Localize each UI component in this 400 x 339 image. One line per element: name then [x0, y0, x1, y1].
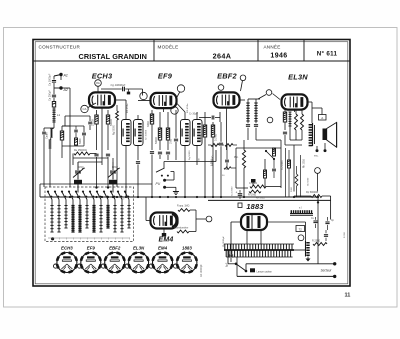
svg-text:EBF2: EBF2 [217, 72, 237, 81]
feedback box wires [236, 148, 281, 188]
IF transformer 1b [134, 120, 144, 146]
wire bus right drop [317, 197, 319, 264]
output transformer [309, 123, 315, 146]
svg-text:25000: 25000 [200, 134, 203, 141]
svg-text:s.f.: s.f. [299, 207, 302, 209]
svg-text:Cd 10000pF: Cd 10000pF [201, 264, 203, 277]
svg-text:8A: 8A [96, 81, 100, 85]
svg-text:MODÈLE: MODÈLE [158, 44, 179, 50]
svg-text:72: 72 [299, 227, 303, 231]
pin 15 [240, 75, 246, 81]
tube ECH3 [89, 92, 115, 107]
svg-text:MF 472kc: MF 472kc [127, 102, 129, 113]
pin 6B [177, 85, 184, 92]
wire IF1 bottom [126, 146, 138, 198]
label A box [312, 108, 326, 120]
svg-text:Cg 10000pF: Cg 10000pF [111, 83, 126, 87]
svg-text:0,1MΩ: 0,1MΩ [215, 134, 218, 141]
svg-text:Ch 8000μF: Ch 8000μF [223, 235, 225, 247]
capacitor note [201, 264, 203, 277]
svg-text:Rf 1MΩ: Rf 1MΩ [248, 194, 256, 197]
svg-text:EBF2: EBF2 [109, 245, 121, 250]
svg-text:Rk 150Ω: Rk 150Ω [304, 159, 306, 168]
capacitor Cb1 [74, 126, 78, 138]
resistor R11 [248, 190, 261, 196]
wire CV2 feed [107, 158, 113, 189]
coil bank L6 [61, 191, 68, 240]
coil bank L8 [75, 191, 82, 240]
wire det [248, 94, 280, 141]
switch common bar [48, 237, 130, 240]
svg-text:ECH3: ECH3 [61, 245, 73, 250]
resistor REL cathode [283, 109, 286, 130]
svg-text:oc: oc [80, 237, 82, 239]
capacitor left mid [79, 126, 86, 144]
svg-text:ECH3: ECH3 [92, 72, 113, 81]
pin 6E [267, 117, 273, 123]
resistor Rtone [273, 148, 276, 156]
label 72 box [296, 226, 305, 232]
IF transformer 2a [181, 120, 191, 146]
wire af join [256, 140, 281, 148]
svg-text:EL3N: EL3N [133, 245, 145, 250]
svg-text:50000: 50000 [110, 119, 113, 126]
svg-text:oc: oc [87, 237, 89, 239]
wire Rp [294, 196, 331, 220]
resistor REF9 cathode [147, 110, 154, 150]
wire el3n col1 [286, 148, 301, 197]
capacitor Cdet [246, 121, 250, 132]
coil bank L11 [96, 191, 103, 240]
node A2 antenna terminal [54, 86, 68, 92]
resistor R8 [211, 122, 217, 197]
svg-text:oc: oc [94, 237, 96, 239]
tube EBF2 [214, 92, 240, 107]
svg-text:11: 11 [345, 293, 351, 299]
resistor R screen [155, 112, 162, 150]
tube 1883 [241, 214, 267, 230]
svg-text:CRISTAL GRANDIN: CRISTAL GRANDIN [78, 52, 147, 61]
resistor Rel y [295, 166, 298, 197]
capacitor C osc2 [106, 154, 110, 187]
svg-text:R 250Ω: R 250Ω [312, 240, 320, 243]
svg-text:Rp 50000Ω: Rp 50000Ω [306, 191, 318, 194]
socket EL3N [125, 245, 148, 272]
variable capacitor CV2 [108, 162, 120, 193]
svg-text:Ca 1000pF: Ca 1000pF [49, 73, 52, 86]
capacitor C6 [174, 110, 178, 160]
resistor Rvol [234, 140, 246, 197]
capacitor C left1 [42, 128, 54, 187]
speaker [323, 122, 337, 147]
switch mains [228, 250, 247, 272]
wire antenna to switch [61, 88, 70, 187]
coil bank L12 [103, 191, 110, 240]
svg-text:5000: 5000 [291, 186, 293, 192]
svg-text:oc: oc [59, 237, 61, 239]
resistor Ravc2 [225, 144, 237, 147]
svg-text:Rh 350Ω: Rh 350Ω [256, 198, 265, 200]
capacitor CIF1 [136, 162, 140, 197]
coil choke EL [289, 112, 292, 140]
resistor Ra [52, 102, 55, 108]
resistor R1 oscillator [92, 110, 99, 150]
capacitor C11 electrolytic [236, 190, 243, 199]
svg-text:L1: L1 [57, 113, 61, 117]
svg-text:Potentiomètre: Potentiomètre [174, 227, 189, 230]
capacitor Cr 30pF [189, 112, 220, 122]
socket EF9 [77, 245, 100, 272]
svg-text:+: + [236, 191, 238, 195]
pin EM4 right [206, 216, 212, 222]
pin 6F [315, 168, 321, 174]
wire right drop [317, 173, 319, 191]
tube EL3N [282, 94, 308, 109]
resistor Rb1 [75, 138, 78, 146]
capacitor Ctone [272, 159, 276, 178]
wire EF9 [138, 92, 180, 113]
resistor REM1 [177, 206, 196, 212]
svg-text:50000: 50000 [155, 137, 158, 144]
svg-text:MF 472kc: MF 472kc [187, 102, 189, 113]
resistor R3 padding [74, 149, 90, 155]
pin CB [140, 92, 147, 99]
resistor Rel x [288, 150, 291, 197]
pin CD [218, 85, 224, 91]
band switch box [45, 187, 134, 242]
wire IF2 top [177, 103, 198, 120]
resistor Ravc1 [208, 144, 224, 166]
IF transformer 1a [122, 120, 132, 146]
header table [34, 40, 350, 61]
tube EM4 [151, 213, 178, 229]
wire ECH3 top [88, 86, 102, 165]
capacitor CEL [283, 132, 287, 145]
svg-text:oc: oc [73, 237, 75, 239]
svg-text:Rg 50000: Rg 50000 [189, 150, 191, 160]
wire bus top-left [40, 184, 152, 187]
svg-text:1883: 1883 [246, 202, 264, 211]
svg-text:Secteur: Secteur [321, 269, 333, 273]
wire EL3N bottom joins [285, 140, 302, 192]
capacitor C4 [158, 152, 162, 159]
svg-text:N° 611: N° 611 [317, 51, 338, 58]
coil bank L7 [68, 191, 75, 240]
capacitor CEF9 [150, 152, 154, 197]
wire CV1 feed [78, 162, 102, 189]
resistor REL3 [301, 110, 304, 140]
resistor Ravc3 [224, 167, 236, 170]
wire EL3N [295, 102, 313, 123]
svg-text:A1: A1 [63, 74, 68, 78]
coil bank L14 [117, 191, 124, 240]
capacitor Cavc [225, 145, 229, 170]
resistor Rright [312, 240, 327, 246]
svg-text:oc: oc [66, 237, 68, 239]
resistor R grid [166, 112, 172, 150]
resistor R7 [200, 112, 207, 197]
socket EBF2 [101, 245, 124, 272]
capacitor C osc [94, 154, 98, 187]
svg-text:300Ω: 300Ω [147, 121, 150, 127]
detector coil T3b [248, 99, 260, 121]
coil L2 cadre [46, 128, 55, 139]
variable capacitor CV1 [73, 162, 85, 193]
svg-text:Cb 5000: Cb 5000 [308, 177, 310, 186]
svg-text:Cm 50000: Cm 50000 [146, 129, 148, 140]
pin 7B [171, 107, 178, 114]
wire mains L2 [237, 257, 336, 278]
IF transformer 2b [193, 120, 203, 146]
coil L1 antenna [52, 107, 60, 128]
resistor R10 [249, 182, 281, 188]
socket ECH3 [54, 245, 77, 272]
wire EBF2 [227, 81, 246, 151]
wire hexode grid rows [62, 126, 84, 146]
svg-text:1MΩ: 1MΩ [170, 139, 173, 144]
svg-text:oc: oc [101, 237, 103, 239]
svg-text:5000: 5000 [79, 138, 82, 144]
capacitor Cdet2 [254, 121, 258, 132]
ground chassis [306, 257, 311, 262]
schematic frame [33, 40, 350, 287]
pin 7 [298, 235, 304, 241]
potentiometer dark box [251, 179, 256, 186]
pin 8A [95, 80, 102, 87]
resistor R2 [106, 110, 113, 150]
wire HT secondary [267, 222, 306, 250]
capacitor Ca1 1000pF [49, 73, 57, 88]
svg-text:1946: 1946 [270, 53, 287, 60]
coil bank L15 [124, 191, 131, 240]
wire A1 drop [60, 75, 62, 81]
pin 8D [266, 90, 272, 96]
junction dots on bus [69, 196, 319, 198]
choke filter comb [290, 207, 313, 215]
svg-text:Lampe cadran: Lampe cadran [257, 270, 273, 273]
resistor RIF [114, 105, 119, 187]
svg-text:EL3N: EL3N [288, 73, 308, 82]
node A1 antenna terminal [54, 73, 68, 78]
tube 1883 label [238, 202, 264, 211]
resistor Rp 50000 [306, 191, 322, 197]
detector coil T3a [246, 99, 249, 121]
svg-text:Rg 50000: Rg 50000 [114, 124, 116, 135]
svg-text:EF9: EF9 [87, 245, 96, 250]
wire 1883 [231, 222, 261, 247]
misc value labels [122, 102, 346, 247]
lamp dial [250, 268, 272, 273]
resistor left mid [60, 126, 70, 158]
svg-text:Re 25000Ω: Re 25000Ω [74, 149, 87, 152]
coil bank L13 [110, 191, 117, 240]
capacitor Cright3 [324, 230, 328, 241]
svg-text:CA: CA [83, 107, 87, 111]
svg-text:CONSTRUCTEUR: CONSTRUCTEUR [39, 45, 81, 50]
svg-text:oc: oc [115, 237, 117, 239]
coil bank L5 [54, 191, 61, 240]
tube EF9 [151, 93, 177, 108]
wire PU bus [164, 150, 216, 168]
svg-text:PU: PU [156, 182, 161, 186]
svg-text:oc: oc [108, 237, 110, 239]
svg-text:Rd 0,5MΩ: Rd 0,5MΩ [213, 155, 215, 166]
svg-text:Cr 30pF: Cr 30pF [189, 113, 199, 116]
svg-text:EM4: EM4 [159, 237, 174, 244]
capacitor C5 [166, 152, 170, 160]
wire EM4 [146, 197, 206, 236]
switch PU [156, 168, 179, 194]
wire HT bus [208, 199, 331, 201]
svg-text:ANNÉE: ANNÉE [263, 44, 280, 50]
transformer secondary [306, 241, 310, 257]
svg-text:264A: 264A [213, 52, 232, 61]
capacitor C7 [219, 122, 223, 197]
svg-text:Ca 250pF: Ca 250pF [49, 90, 52, 101]
transformer T mains [224, 244, 294, 257]
resistor Raf1 [264, 159, 267, 188]
svg-text:oc: oc [129, 237, 131, 239]
wire speaker field [314, 143, 327, 158]
svg-text:R 300: R 300 [344, 231, 346, 238]
coil bank L4 [47, 191, 54, 240]
capacitor Cf1 8uF [226, 247, 234, 267]
resistor REM2 [174, 227, 189, 233]
resistor REL2 [295, 110, 298, 140]
wire main earth bus [40, 187, 318, 197]
capacitor Cg 10000pF [101, 83, 143, 96]
svg-text:oc: oc [122, 237, 124, 239]
wire IF1 top [115, 100, 138, 120]
socket 1883 [174, 245, 197, 272]
capacitor Cright1 [311, 217, 318, 228]
svg-text:1883: 1883 [182, 245, 192, 250]
socket EM4 [149, 245, 172, 272]
svg-text:Cx 10000: Cx 10000 [232, 186, 234, 196]
svg-text:20000: 20000 [92, 119, 95, 126]
wire grid line [65, 116, 92, 130]
svg-text:A: A [321, 116, 323, 120]
svg-text:Cadre: Cadre [46, 132, 49, 139]
pin CA [81, 105, 88, 112]
svg-text:EF9: EF9 [158, 72, 173, 81]
capacitor Cright2 [325, 217, 334, 230]
wire osc row [73, 154, 108, 166]
capacitor Ca2 250pF [49, 88, 57, 102]
label avc [213, 155, 234, 196]
wire IF2 bottom [185, 146, 197, 198]
svg-text:R app. 1MΩ: R app. 1MΩ [177, 206, 190, 208]
svg-text:EM4: EM4 [158, 245, 168, 250]
label col [291, 159, 306, 192]
switch tone [265, 148, 275, 160]
coil bank L9 [82, 191, 89, 240]
svg-text:A2: A2 [63, 88, 68, 92]
wire mains L1 [246, 262, 336, 271]
svg-text:exc.: exc. [314, 155, 319, 158]
coil bank L10 [89, 191, 96, 240]
svg-text:Ca 50000: Ca 50000 [282, 160, 284, 170]
coil L3 [49, 137, 52, 187]
